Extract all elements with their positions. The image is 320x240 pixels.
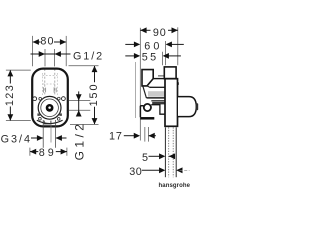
spindle center hole — [48, 106, 51, 109]
upper housing block — [164, 67, 176, 79]
svg-text:17: 17 — [109, 130, 123, 142]
band bottom line — [147, 97, 166, 99]
mid line — [151, 100, 165, 102]
svg-text:G3/4: G3/4 — [1, 133, 32, 145]
dim 89: arrows — [30, 149, 36, 155]
side port dim: extension lines — [69, 100, 91, 102]
svg-text:G1/2: G1/2 — [73, 121, 87, 161]
dim 150: dimension line — [94, 66, 96, 82]
svg-text:55: 55 — [142, 51, 159, 63]
boss square right — [59, 113, 62, 116]
dim G3/4: leader line — [31, 137, 43, 139]
pipe thread dotted left — [168, 127, 170, 177]
dim 89: line — [30, 151, 38, 153]
dim 123: dimension line — [9, 70, 11, 83]
svg-text:150: 150 — [88, 83, 100, 107]
side port dim: leader — [78, 91, 80, 114]
bottom port thread line left — [42, 120, 44, 148]
flange corner screw bottom-left — [39, 117, 42, 120]
bottom port thread line right — [55, 120, 57, 148]
dim 123: extension lines — [6, 69, 31, 71]
pipe outer line right — [175, 127, 177, 177]
flange outer circle — [38, 96, 61, 119]
hidden cartridge dashed outline (inner pair) — [45, 69, 55, 96]
funnel diagonal right — [147, 86, 151, 88]
long extension line (rough wall / dim reference) — [139, 28, 141, 141]
dark band — [152, 102, 165, 105]
pipe thread dotted right — [172, 127, 174, 177]
svg-text:80: 80 — [40, 36, 54, 48]
svg-text:30: 30 — [129, 166, 142, 178]
dome tip nub — [196, 103, 199, 110]
hidden cartridge dashed outline (outer pair) — [42, 73, 57, 95]
grey depth band — [148, 91, 165, 97]
dim 17: extension lines — [144, 127, 146, 142]
funnel diagonal left — [143, 86, 147, 98]
left screw hole — [33, 97, 37, 101]
dim 17: leader + arrows — [124, 135, 137, 137]
svg-text:90: 90 — [153, 27, 167, 39]
bottom boss rectangle — [44, 121, 51, 124]
elbow circle — [144, 104, 151, 111]
dim 90: right extension line — [177, 27, 179, 65]
neck second line — [158, 75, 165, 77]
neck top line — [153, 78, 165, 80]
dim 90: arrows — [140, 27, 146, 33]
side port dim: arrows — [76, 94, 82, 100]
right screw hole — [62, 97, 66, 101]
cartridge clamp marks — [43, 87, 56, 92]
dim 55: leader + arrows — [125, 55, 137, 57]
elbow body left edge — [140, 106, 143, 117]
dim G1/2 top: leader line — [31, 53, 71, 55]
flange corner screw bottom-right — [57, 118, 60, 121]
dim 80 extension line left — [32, 36, 34, 66]
svg-text:123: 123 — [4, 84, 16, 106]
stop flange rectangle — [142, 70, 153, 86]
bottom port core line — [50, 124, 52, 143]
dim 123: arrows — [7, 70, 13, 76]
svg-text:5: 5 — [142, 152, 148, 164]
dim 30: leader + arrows — [142, 169, 162, 171]
boss square left — [37, 113, 40, 116]
main housing body — [165, 79, 178, 127]
flange top line — [150, 86, 165, 88]
flange corner screw top-left — [39, 97, 42, 100]
dim 55: extension line — [162, 52, 164, 65]
dim 150: extension lines — [69, 65, 99, 67]
elbow step right — [151, 105, 165, 115]
dim 80 line — [33, 41, 67, 43]
svg-text:hansgrohe: hansgrohe — [159, 183, 191, 189]
dim 80 extension line right — [65, 36, 67, 66]
rear dome (bulb) — [178, 97, 196, 117]
dim G1/2 top: arrows — [39, 51, 45, 57]
flange corner screw top-right — [57, 97, 60, 100]
pipe outer line left — [164, 127, 166, 177]
wall line (finished wall) — [135, 62, 137, 118]
housing side nub — [177, 82, 179, 85]
dim G3/4: arrows — [37, 135, 43, 141]
elbow bottom bar — [140, 117, 154, 120]
flange inner circle — [41, 99, 59, 117]
dim 5: leader + arrows — [149, 155, 163, 157]
bottom connection arc — [37, 120, 63, 123]
dim 150: arrows — [92, 66, 98, 72]
dim 89: extension lines — [29, 148, 31, 156]
dim 90: line — [140, 29, 150, 31]
spindle black disc — [46, 104, 54, 112]
dim G1/2 top: extension lines — [44, 49, 46, 66]
dim 80 arrows — [33, 39, 39, 45]
svg-text:89: 89 — [39, 147, 57, 159]
dim 60: extension line — [165, 41, 167, 65]
dim 60: leader + arrows — [125, 43, 137, 45]
oval valve body outline — [32, 69, 68, 127]
svg-text:G1/2: G1/2 — [73, 50, 104, 62]
